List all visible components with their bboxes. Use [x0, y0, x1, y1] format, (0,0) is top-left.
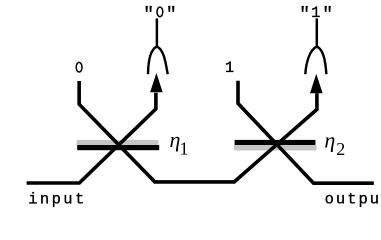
svg-text:": " — [322, 5, 333, 25]
svg-text:": " — [166, 5, 177, 25]
svg-text:": " — [299, 5, 310, 25]
detector D1 stem — [316, 18, 319, 46]
arrow into detector D1 — [310, 74, 323, 93]
beam splitter BS1 black plate — [77, 145, 159, 150]
detector D0 stem — [156, 18, 159, 46]
svg-text:1: 1 — [180, 138, 189, 158]
svg-text:output: output — [325, 190, 381, 208]
arrow into detector D0 — [150, 73, 163, 92]
svg-text:": " — [143, 5, 154, 25]
svg-text:input: input — [28, 190, 84, 208]
wire: input rail, through BS1, up to detector D0 arrow — [27, 93, 156, 183]
wire: port 0 stub, through BS1, middle rail, through BS2, up to detector D1 arrow — [79, 81, 317, 182]
label "0" of detector D0 : zero glyph — [157, 7, 163, 17]
detector D1 cup — [305, 47, 326, 75]
svg-text:η: η — [324, 127, 335, 152]
detector D0 cup — [148, 47, 168, 75]
svg-text:1: 1 — [311, 4, 320, 22]
beam splitter BS2 black plate — [235, 140, 316, 145]
beam splitter BS2 gray plate — [234, 145, 317, 150]
label 0 of input port 0 — [76, 62, 82, 72]
beam splitter BS1 gray plate — [77, 140, 159, 145]
svg-text:2: 2 — [336, 139, 345, 159]
svg-text:1: 1 — [225, 59, 234, 77]
wire: port 1 stub, through BS2, to output rail — [238, 81, 374, 183]
